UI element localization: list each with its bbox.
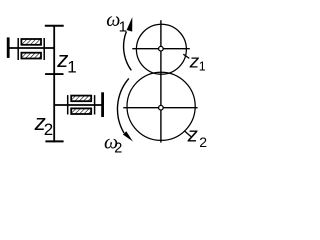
gear 1 pitch circle [136, 24, 186, 74]
common vertical centerline [160, 20, 162, 142]
svg-text:1: 1 [67, 58, 76, 77]
bearing B1 left tick [17, 38, 19, 60]
hub 1 [159, 46, 164, 51]
bearing B2 left tick [67, 95, 69, 114]
shaft 2 [54, 104, 101, 106]
shaft 1 end cap [7, 37, 10, 58]
svg-text:2: 2 [44, 120, 53, 139]
gear 2 horizontal centerline [123, 107, 197, 109]
svg-text:2: 2 [114, 140, 122, 156]
gear 1 horizontal centerline [132, 48, 190, 50]
svg-text:z: z [189, 51, 200, 71]
shaft 2 end cap [101, 92, 104, 117]
svg-text:z: z [187, 124, 198, 147]
omega2 arrowhead [123, 131, 133, 141]
bearing B2 upper block [71, 96, 91, 102]
bearing B2 lower block [71, 108, 91, 114]
bearing B2 right tick [94, 95, 96, 114]
omega2 rotation arc [117, 79, 128, 134]
bearing B1 lower block [21, 53, 41, 59]
omega1 rotation arc [124, 32, 132, 71]
omega1 arrowhead [127, 17, 133, 32]
svg-text:1: 1 [199, 59, 206, 73]
gear 2 pitch circle [127, 72, 195, 140]
shaft 1 [7, 47, 54, 49]
hub 2 [159, 105, 164, 110]
mesh cap (z1 bottom / z2 top) [45, 73, 63, 75]
gear stack line (z1/z2 side view) [53, 25, 55, 142]
bearing B1 right tick [43, 38, 45, 60]
leader z1 (right) [183, 54, 189, 58]
leader z2 (right) [185, 131, 191, 136]
svg-text:2: 2 [199, 134, 207, 150]
bearing B1 upper block [21, 39, 41, 45]
gear z2 bottom cap [45, 140, 63, 142]
gear z1 top cap [45, 25, 64, 27]
